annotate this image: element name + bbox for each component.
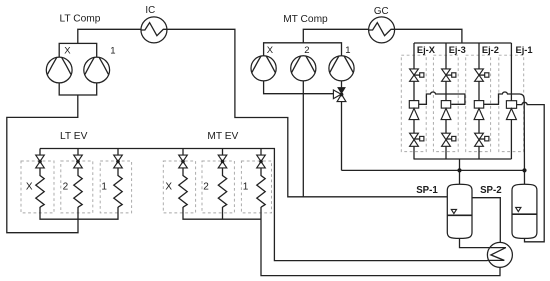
wire IC outlet to SP-1 left port <box>167 29 447 197</box>
evaporator coil LT 2 <box>74 168 82 207</box>
wire MT comp suction manifold <box>264 81 334 94</box>
ejector Ej-3 nozzle <box>441 101 451 120</box>
svg-text:MT EV: MT EV <box>207 131 238 142</box>
svg-text:Ej-1: Ej-1 <box>516 45 533 55</box>
valve Ej-2 bottom <box>475 133 489 146</box>
wire ejector suction Ej-X to Ej-3 <box>419 92 465 104</box>
svg-text:X: X <box>267 45 274 56</box>
junction node at SP-2 riser <box>522 168 526 172</box>
dashed box Ej-2 <box>466 55 491 151</box>
svg-text:Ej-X: Ej-X <box>417 45 436 55</box>
svg-text:X: X <box>64 45 71 56</box>
junction node at SP-1 riser <box>457 168 461 172</box>
wire SP-1 top riser <box>459 159 461 185</box>
svg-text:Ej-3: Ej-3 <box>449 45 466 55</box>
wire liquid supply manifold to HX <box>40 149 488 261</box>
dashed box LT EV X <box>21 161 54 213</box>
three-way valve under MT comp 1 <box>333 87 346 102</box>
compressor frame MT <box>264 43 342 56</box>
wire separator top header <box>342 169 525 171</box>
dashed box MT EV 2 <box>202 161 234 213</box>
svg-text:MT Comp: MT Comp <box>283 14 328 25</box>
expansion valve MT EV X <box>179 149 188 168</box>
wire MT comp 2 suction riser <box>302 81 304 197</box>
wire LT EV bottom manifold <box>40 207 118 219</box>
evaporator coil MT X <box>179 168 187 207</box>
valve Ej-X bottom <box>410 133 424 146</box>
compressor frame LT <box>59 43 96 95</box>
wire MT EV return to HX bottom <box>261 207 500 276</box>
ejector Ej-X nozzle <box>409 101 419 120</box>
evaporator coil MT 1 <box>257 168 265 207</box>
separator SP-1 <box>447 184 472 238</box>
compressor LT 1 <box>84 57 110 83</box>
wire GC outlet to ejector manifold <box>395 29 462 43</box>
evaporator coil LT X <box>36 168 44 207</box>
compressor LT X <box>46 57 72 83</box>
svg-text:Ej-2: Ej-2 <box>482 45 499 55</box>
Ej-1 motive line <box>510 43 512 101</box>
wire SP-2 bottom loop to Ej-1 suction <box>517 102 544 241</box>
wire SP-1 bottom outlet to HX <box>460 238 488 248</box>
svg-text:X: X <box>165 181 172 192</box>
wire MT comp discharge to GC <box>303 29 368 43</box>
Ej-2 motive line <box>478 43 480 69</box>
wire MT comp 1 drop to valve <box>341 81 343 88</box>
svg-text:2: 2 <box>63 181 69 192</box>
expansion valve LT EV 2 <box>74 149 83 168</box>
wire LT comp suction loop <box>7 95 78 233</box>
expansion valve MT EV 1 <box>257 149 266 168</box>
dashed box Ej-1 <box>499 55 524 151</box>
svg-text:X: X <box>26 181 33 192</box>
evaporator coil LT 1 <box>114 168 122 207</box>
svg-text:1: 1 <box>243 181 249 192</box>
dashed box LT EV 2 <box>61 161 93 213</box>
Ej-3 motive line <box>445 43 447 69</box>
wire MT EV coil 2 drop <box>222 207 224 219</box>
svg-text:1: 1 <box>101 181 107 192</box>
compressor MT X <box>251 56 276 81</box>
expansion valve LT EV 1 <box>114 149 123 168</box>
svg-text:SP-1: SP-1 <box>416 185 438 196</box>
dashed box Ej-X <box>401 55 426 151</box>
compressor MT 2 <box>291 56 316 81</box>
dashed box MT EV X <box>163 161 195 213</box>
wire valve to liquid line <box>341 102 343 171</box>
expansion valve MT EV 2 <box>218 149 227 168</box>
valve Ej-X top <box>410 69 424 81</box>
dashed box Ej-3 <box>433 55 458 151</box>
svg-text:IC: IC <box>145 5 155 16</box>
dashed box LT EV 1 <box>100 161 131 213</box>
svg-text:2: 2 <box>304 45 309 56</box>
wire LT comp discharge to IC <box>78 29 141 43</box>
svg-text:1: 1 <box>110 45 115 56</box>
Ej-X motive line <box>413 43 415 69</box>
expansion valve LT EV X <box>36 149 45 168</box>
wire MT EV bottom manifold <box>183 207 261 219</box>
gas cooler GC <box>369 17 395 43</box>
svg-text:LT Comp: LT Comp <box>60 13 101 24</box>
svg-text:LT EV: LT EV <box>60 131 88 142</box>
wire ejector top manifold <box>414 42 511 44</box>
svg-text:GC: GC <box>374 6 389 17</box>
valve Ej-3 top <box>442 69 456 81</box>
compressor MT 1 <box>329 56 354 81</box>
heat exchanger HX <box>487 242 512 267</box>
ejector Ej-2 nozzle <box>474 101 484 120</box>
ejector Ej-1 nozzle <box>506 101 516 120</box>
svg-text:1: 1 <box>345 45 350 56</box>
intercooler IC <box>141 17 167 43</box>
svg-text:2: 2 <box>203 181 209 192</box>
svg-text:SP-2: SP-2 <box>480 185 502 196</box>
valve Ej-2 top <box>475 69 489 81</box>
wire ejector bottom manifold <box>414 158 512 160</box>
wire SP-1 right port to HX top <box>472 198 500 243</box>
separator SP-2 <box>512 184 537 238</box>
wire ejector suction Ej-2 to SP-2 top <box>484 92 525 185</box>
evaporator coil MT 2 <box>218 168 226 207</box>
valve Ej-3 bottom <box>442 133 456 146</box>
dashed box MT EV 1 <box>241 161 271 213</box>
